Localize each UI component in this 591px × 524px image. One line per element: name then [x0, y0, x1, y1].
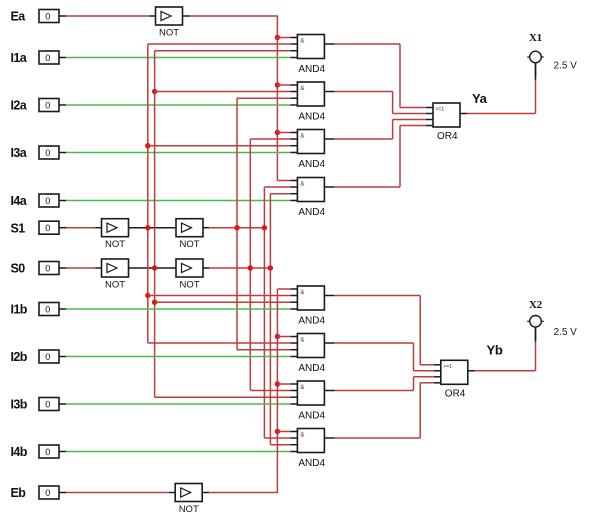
voltage probe X1 — [527, 32, 544, 63]
wire U14 output net Eb' — [202, 492, 209, 494]
svg-text:0: 0 — [45, 304, 50, 314]
probe pin wire — [535, 327, 537, 342]
AND4 gate U5 — [297, 178, 325, 218]
wire stub Eb — [59, 492, 66, 494]
svg-text:AND4: AND4 — [298, 64, 325, 75]
wire vertical net Eb' — [276, 289, 278, 493]
wire S1' branch — [148, 43, 291, 45]
junction S1' — [145, 143, 150, 148]
wire S1''a branch — [237, 349, 290, 351]
pins of U5 — [290, 288, 297, 290]
junction S0' — [152, 89, 157, 94]
wire stub S1 — [59, 227, 66, 229]
junction Ea' to U2 pin1 — [275, 35, 280, 40]
svg-text:AND4: AND4 — [298, 315, 325, 326]
wire vertical net S0''a — [249, 139, 251, 391]
wire net Yb — [475, 370, 536, 372]
wire U12 out to U13 (net S0') — [129, 267, 177, 269]
wire U3 output to OR4 U9a pin2 — [334, 91, 392, 93]
svg-text:&: & — [300, 182, 304, 188]
wire stub I1a — [59, 57, 66, 59]
wire Eb to NOT U14 — [66, 492, 169, 494]
junction S0' — [152, 265, 157, 270]
wire I1a data net — [66, 57, 290, 59]
wire U2 output to OR4 U9a pin1 — [334, 43, 400, 45]
wire S0' branch — [155, 91, 291, 93]
wire U8 output to OR4 U9b pin4 — [334, 437, 420, 439]
junction S0''a — [248, 265, 253, 270]
svg-text:OR4: OR4 — [437, 131, 458, 142]
svg-text:NOT: NOT — [105, 239, 125, 250]
wire S0' branch — [155, 50, 291, 52]
wire stub I3a — [59, 152, 66, 154]
svg-text:0: 0 — [45, 11, 50, 21]
svg-text:AND4: AND4 — [298, 207, 325, 218]
AND4 gate U6 — [297, 334, 325, 374]
junction S1' — [145, 293, 150, 298]
wire S0''b branch — [270, 444, 290, 446]
svg-text:AND4: AND4 — [298, 159, 325, 170]
NOT gate U11 — [176, 219, 203, 250]
junction Eb' to U6 pin1 — [275, 334, 280, 339]
wire S1''a branch — [237, 97, 290, 99]
wire S1' branch — [148, 295, 291, 297]
wire I1b data net — [66, 308, 290, 310]
wire vertical net S1''a — [236, 98, 238, 350]
svg-text:I4b: I4b — [11, 445, 28, 459]
svg-text:>=1: >=1 — [436, 107, 445, 113]
svg-text:2.5 V: 2.5 V — [554, 327, 578, 338]
junction S0''b — [268, 265, 273, 270]
wire U11 output net S1'' — [203, 227, 209, 229]
input constant S0 — [11, 262, 60, 276]
svg-text:I1b: I1b — [11, 303, 28, 317]
wire S0''a branch — [250, 390, 290, 392]
svg-text:&: & — [300, 134, 304, 140]
svg-text:AND4: AND4 — [298, 458, 325, 469]
input constant I1b — [11, 303, 60, 317]
wire Ea to NOT U1 — [66, 15, 150, 17]
input constant I2a — [11, 99, 60, 113]
wire stub Ea — [59, 15, 66, 17]
svg-text:I1a: I1a — [11, 51, 28, 65]
svg-text:Yb: Yb — [487, 342, 503, 357]
svg-text:I3b: I3b — [11, 398, 28, 412]
junction Eb' to U8 pin1 — [275, 429, 280, 434]
pins of U7 — [290, 383, 297, 385]
svg-text:0: 0 — [45, 399, 50, 409]
svg-text:X2: X2 — [529, 299, 543, 311]
wire stub I1b — [59, 308, 66, 310]
junction S1' — [145, 225, 150, 230]
wire vertical net S0' — [154, 51, 156, 398]
wire U5 output to OR4 U9b pin1 — [334, 295, 420, 297]
OR4 gate U9b — [441, 360, 468, 399]
pins of U6 — [290, 336, 297, 338]
svg-text:2.5 V: 2.5 V — [554, 60, 578, 71]
wire S0 to NOT U12 — [66, 267, 96, 269]
svg-text:I2b: I2b — [11, 350, 28, 364]
AND4 gate U8 — [297, 429, 325, 469]
svg-text:AND4: AND4 — [298, 111, 325, 122]
input constant I4b — [11, 445, 60, 459]
wire stub S0 — [59, 267, 66, 269]
svg-text:0: 0 — [45, 488, 50, 498]
wire S0' branch — [155, 396, 291, 398]
input constant I1a — [11, 51, 60, 65]
input constant S1 — [11, 221, 60, 235]
svg-text:0: 0 — [45, 148, 50, 158]
AND4 gate U3 — [297, 82, 325, 122]
wire S1' branch — [148, 342, 291, 344]
probe pin wire — [535, 63, 537, 78]
pins of U4 — [290, 132, 297, 134]
wire U13 output net S0'' — [203, 267, 209, 269]
svg-text:Ya: Ya — [472, 91, 488, 106]
NOT gate U13 — [176, 259, 203, 290]
svg-text:Ea: Ea — [11, 10, 27, 24]
pins of U5 — [290, 180, 297, 182]
NOT gate U1 — [156, 7, 183, 38]
wire stub I4b — [59, 451, 66, 453]
wire Eb' corner to U5 pin1 — [277, 288, 290, 290]
svg-text:0: 0 — [45, 100, 50, 110]
pins of U8 — [290, 431, 297, 433]
svg-text:I4a: I4a — [11, 194, 28, 208]
pins of U3 — [290, 84, 297, 86]
junction Ea' to U3 pin1 — [275, 82, 280, 87]
wire vertical net S1''b — [263, 187, 265, 438]
svg-text:&: & — [300, 338, 304, 344]
NOT gate U10 — [102, 219, 129, 250]
junction S1''a — [234, 225, 239, 230]
svg-text:0: 0 — [45, 196, 50, 206]
wire S1''b branch — [264, 186, 290, 188]
svg-text:AND4: AND4 — [298, 410, 325, 421]
svg-text:0: 0 — [45, 53, 50, 63]
svg-text:&: & — [300, 39, 304, 45]
svg-text:NOT: NOT — [105, 279, 125, 290]
wire stub I4a — [59, 200, 66, 202]
wire U4 output to OR4 U9a pin3 — [334, 138, 392, 140]
junction S0' — [152, 300, 157, 305]
wire U5 output to OR4 U9a pin4 — [334, 186, 400, 188]
wire S0''a branch — [250, 138, 290, 140]
wire S0' branch — [155, 301, 291, 303]
wire S1' branch — [148, 145, 291, 147]
wire vertical net S0''b — [269, 194, 271, 445]
wire U1 output net Ea' — [183, 15, 191, 17]
wire stub I2a — [59, 104, 66, 106]
svg-text:&: & — [300, 433, 304, 439]
input constant Eb — [11, 486, 60, 500]
input constant I3b — [11, 398, 60, 412]
svg-text:0: 0 — [45, 352, 50, 362]
junction Eb' to U7 pin1 — [275, 381, 280, 386]
wire net Ya — [467, 113, 536, 115]
input constant I4a — [11, 194, 60, 208]
svg-text:&: & — [300, 385, 304, 391]
wire I3a data net — [66, 152, 290, 154]
pins of U2 — [290, 37, 297, 39]
voltage probe X2 — [527, 299, 544, 327]
svg-text:NOT: NOT — [180, 239, 200, 250]
svg-text:S1: S1 — [11, 221, 26, 235]
AND4 gate U5 — [297, 286, 325, 326]
svg-text:&: & — [300, 290, 304, 296]
AND4 gate U4 — [297, 130, 325, 170]
wire I2b data net — [66, 356, 290, 358]
AND4 gate U7 — [297, 381, 325, 421]
wire vertical net S1' — [147, 44, 149, 343]
svg-text:Eb: Eb — [11, 486, 27, 500]
wire S1 to NOT U10 — [66, 227, 96, 229]
svg-text:>=1: >=1 — [443, 364, 452, 370]
pins of U9b — [434, 364, 441, 366]
junction Ea' to U4 pin1 — [275, 130, 280, 135]
wire S0''b branch — [270, 193, 290, 195]
svg-text:X1: X1 — [529, 32, 542, 44]
wire U7 output to OR4 U9b pin3 — [334, 390, 413, 392]
wire U6 output to OR4 U9b pin2 — [334, 342, 413, 344]
wire U10 out to U11 (net S1') — [129, 227, 177, 229]
wire stub I3b — [59, 403, 66, 405]
svg-text:I3a: I3a — [11, 146, 28, 160]
svg-text:0: 0 — [45, 263, 50, 273]
input constant Ea — [11, 10, 60, 24]
svg-text:NOT: NOT — [179, 504, 199, 515]
wire I4b data net — [66, 451, 290, 453]
svg-text:S0: S0 — [11, 262, 26, 276]
wire Ea' corner to U4 pin1 — [277, 180, 290, 182]
AND4 gate U2 — [297, 35, 325, 75]
wire vertical net Ea' — [276, 15, 278, 180]
OR4 gate U9a — [433, 103, 460, 142]
svg-text:OR4: OR4 — [445, 388, 466, 399]
svg-text:I2a: I2a — [11, 99, 28, 113]
input constant I2b — [11, 350, 60, 364]
svg-text:0: 0 — [45, 223, 50, 233]
wire stub I2b — [59, 356, 66, 358]
svg-text:0: 0 — [45, 447, 50, 457]
NOT gate U12 — [102, 259, 129, 290]
svg-text:NOT: NOT — [180, 279, 200, 290]
svg-text:&: & — [300, 86, 304, 92]
wire I3b data net — [66, 403, 290, 405]
NOT gate U14 — [175, 484, 202, 515]
svg-text:NOT: NOT — [159, 27, 179, 38]
wire I4a data net — [66, 200, 290, 202]
junction S1''b — [262, 225, 267, 230]
wire I2a data net — [66, 104, 290, 106]
wire S1''b branch — [264, 437, 290, 439]
input constant I3a — [11, 146, 60, 160]
pins of U9a — [426, 107, 433, 109]
svg-text:AND4: AND4 — [298, 363, 325, 374]
